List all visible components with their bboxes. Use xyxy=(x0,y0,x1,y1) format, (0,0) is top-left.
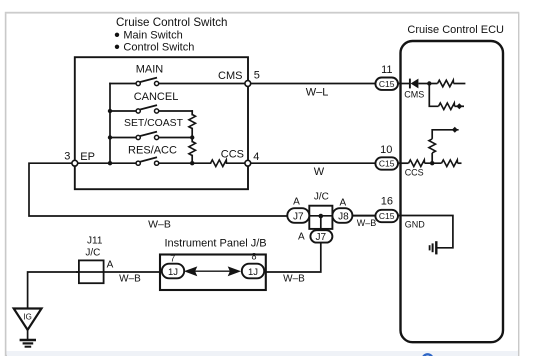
wire resistor R1 to resistor R2 xyxy=(191,129,193,142)
junction dot inside J/C xyxy=(319,214,324,219)
wire through J/C to C15 pin16 xyxy=(288,215,376,217)
wire bottom J7 down and left to J/B xyxy=(266,243,321,272)
svg-text:Cruise Control Switch: Cruise Control Switch xyxy=(116,16,227,29)
svg-text:MAIN: MAIN xyxy=(136,64,164,76)
svg-text:Main Switch: Main Switch xyxy=(123,30,182,42)
resistor ECU CMS upper xyxy=(429,83,437,85)
connector J7 (left) xyxy=(287,208,309,223)
svg-text:Cruise Control ECU: Cruise Control ECU xyxy=(407,24,504,36)
connector 1J pin 7 xyxy=(162,264,184,279)
junction connector J11 xyxy=(79,260,104,283)
switch RES/ACC xyxy=(136,161,140,165)
svg-text:W–B: W–B xyxy=(357,218,377,228)
resistor ECU CCS pull-up (vertical) xyxy=(431,153,433,163)
svg-text:8: 8 xyxy=(251,252,256,262)
arrow right (J/B internal) xyxy=(228,266,241,276)
svg-text:CMS: CMS xyxy=(218,70,242,82)
svg-text:3: 3 xyxy=(64,151,70,163)
svg-text:CCS: CCS xyxy=(405,168,424,178)
switch CANCEL xyxy=(136,109,140,113)
svg-text:CCS: CCS xyxy=(221,149,244,161)
ground earth bars xyxy=(20,340,36,347)
junction bus/RES-ACC xyxy=(108,161,112,165)
connector J7 (bottom) xyxy=(310,230,332,242)
connector C15 pin 16 xyxy=(375,210,398,222)
svg-text:A: A xyxy=(339,198,346,209)
node CCS pin 4 xyxy=(245,160,251,166)
svg-text:5: 5 xyxy=(254,70,260,82)
resistor RES/ACC (vertical) xyxy=(189,142,196,156)
svg-text:J/C: J/C xyxy=(314,192,329,203)
wire resistor R2 to RES/ACC row xyxy=(191,156,193,164)
wire pin4 to C15 xyxy=(251,162,376,164)
arrow left (J/B internal) xyxy=(184,266,197,276)
ECU box xyxy=(401,41,504,342)
svg-text:SET/COAST: SET/COAST xyxy=(124,118,184,129)
svg-text:A: A xyxy=(293,197,300,208)
junction bus/CANCEL xyxy=(108,109,112,113)
wire J11 to J/B xyxy=(76,271,162,273)
connector C15 pin 11 xyxy=(375,78,398,90)
resistor ECU CCS series xyxy=(398,162,409,164)
svg-text:W: W xyxy=(314,166,325,178)
switch MAIN xyxy=(136,81,140,85)
switch assembly box xyxy=(75,57,248,189)
wire EP to left drop xyxy=(29,163,288,216)
ground IG triangle xyxy=(14,309,42,330)
svg-text:CMS: CMS xyxy=(404,90,424,100)
diode CMS input xyxy=(398,79,429,89)
junction CCS xyxy=(430,161,434,165)
svg-text:CANCEL: CANCEL xyxy=(134,91,179,103)
connector J8 (right) xyxy=(332,208,352,223)
switch SET/COAST xyxy=(136,135,140,139)
svg-text:Instrument Panel J/B: Instrument Panel J/B xyxy=(165,237,267,249)
Instrument Panel J/B box xyxy=(160,255,266,291)
connector 1J pin 8 xyxy=(242,264,264,279)
wire dot to bottom J7 xyxy=(320,216,322,230)
wire CANCEL row to resistor R1 xyxy=(191,111,193,115)
wire GND inside ECU xyxy=(398,216,453,248)
junction bus/SET-COAST xyxy=(108,135,112,139)
resistor SET/COAST (vertical) xyxy=(189,115,196,129)
node CMS pin 5 xyxy=(245,81,251,87)
svg-text:7: 7 xyxy=(170,254,175,264)
junction after diode xyxy=(427,81,431,85)
svg-text:10: 10 xyxy=(380,144,392,156)
wire IG to earth xyxy=(27,330,29,340)
svg-text:1J: 1J xyxy=(248,267,258,278)
wire between arrows xyxy=(193,270,232,272)
svg-text:RES/ACC: RES/ACC xyxy=(128,145,177,157)
wire left of J11 xyxy=(28,272,79,308)
svg-text:J7: J7 xyxy=(293,211,304,222)
junction resistor column/RES-ACC xyxy=(190,161,194,165)
svg-text:J8: J8 xyxy=(338,211,349,222)
connector C15 pin 10 xyxy=(375,157,398,169)
svg-text:A: A xyxy=(107,260,114,271)
wire junction down xyxy=(429,84,438,107)
wire RES/ACC switch to resistor R3 xyxy=(159,162,211,164)
wire EP node to RES/ACC switch xyxy=(77,162,136,164)
svg-text:16: 16 xyxy=(381,196,393,208)
svg-text:4: 4 xyxy=(253,151,259,163)
svg-text:W–B: W–B xyxy=(283,273,305,284)
wire resistor R3 to CCS node xyxy=(227,162,245,164)
ground (ECU internal, rotated) xyxy=(430,241,437,254)
wire MAIN switch to CMS node xyxy=(159,83,245,85)
svg-text:J/C: J/C xyxy=(85,248,100,259)
J/C junction box xyxy=(309,206,332,229)
wire pin5 to C15 xyxy=(251,83,376,85)
resistor CCS row (horizontal) xyxy=(211,160,227,167)
svg-text:W–B: W–B xyxy=(119,274,141,285)
wire bus to SET/COAST switch xyxy=(110,137,136,139)
node EP pin 3 xyxy=(72,160,78,166)
svg-text:W–B: W–B xyxy=(148,219,171,231)
svg-text:IG: IG xyxy=(23,313,31,322)
junction resistor column/SET-COAST xyxy=(190,135,194,139)
svg-text:J7: J7 xyxy=(316,232,327,243)
svg-text:Control Switch: Control Switch xyxy=(123,42,194,54)
svg-text:EP: EP xyxy=(80,151,95,163)
bus wire (inner vertical) xyxy=(109,84,111,164)
svg-text:J11: J11 xyxy=(87,236,103,247)
bottom strip xyxy=(5,351,519,356)
svg-text:C15: C15 xyxy=(379,79,395,89)
svg-text:11: 11 xyxy=(381,64,392,76)
svg-text:A: A xyxy=(298,232,305,243)
wire bus to CANCEL switch xyxy=(110,110,136,112)
wire bus to MAIN switch xyxy=(110,83,136,85)
wire SET/COAST switch to junction xyxy=(159,137,193,139)
svg-text:W–L: W–L xyxy=(306,87,329,99)
wire J8 to C15 pin16 xyxy=(352,215,375,217)
wire CANCEL switch to resistor column xyxy=(159,110,193,112)
svg-text:C15: C15 xyxy=(379,211,395,221)
resistor ECU CCS second xyxy=(442,160,458,167)
resistor ECU CMS lower xyxy=(439,103,455,110)
avatar icon (blue circle, partially visible) xyxy=(423,354,433,356)
svg-text:GND: GND xyxy=(405,220,426,230)
svg-text:1J: 1J xyxy=(168,267,178,278)
svg-text:C15: C15 xyxy=(379,159,395,169)
